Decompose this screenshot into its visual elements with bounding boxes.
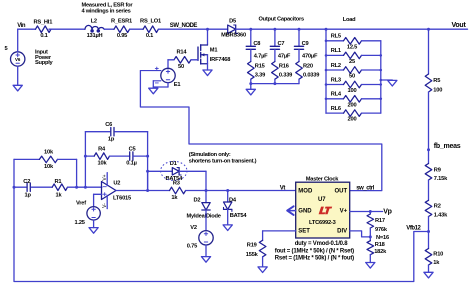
resistor RL5 load	[325, 34, 381, 51]
svg-text:Load: Load	[343, 17, 356, 23]
svg-text:R1: R1	[55, 179, 62, 185]
resistor R17	[367, 212, 388, 237]
wire Vref to ground	[93, 220, 95, 228]
svg-text:5: 5	[5, 46, 8, 52]
node SW_NODE label	[170, 23, 198, 29]
resistor R14 gate	[174, 50, 198, 71]
svg-text:V6: V6	[15, 57, 21, 62]
annotation Master Clock	[306, 176, 339, 182]
diode D4 BAT54	[224, 191, 248, 220]
svg-text:4 windings in series: 4 windings in series	[82, 8, 131, 14]
op-amp U2 LT6015	[102, 173, 132, 209]
svg-text:Master Clock: Master Clock	[306, 176, 339, 182]
op-amp U7 LTC6992 box	[296, 182, 350, 238]
ground under D4	[223, 225, 232, 231]
wire R10 to ground	[428, 265, 430, 272]
svg-text:Rset = (1MHz * 50k) / (N * fou: Rset = (1MHz * 50k) / (N * fout)	[275, 255, 354, 261]
svg-text:RL1: RL1	[331, 48, 341, 54]
svg-text:R19: R19	[247, 242, 257, 248]
wire D1 branch left	[146, 170, 149, 191]
svg-text:131µH: 131µH	[87, 33, 103, 39]
svg-text:V+: V+	[340, 208, 348, 214]
svg-text:100: 100	[433, 87, 442, 93]
svg-text:RL5: RL5	[331, 34, 341, 40]
wire R17 to R18	[369, 237, 371, 241]
wire Vt row to MOD	[206, 190, 296, 192]
svg-text:V2: V2	[190, 225, 197, 231]
wire V6 bottom	[17, 66, 19, 85]
node fb_meas label	[427, 143, 461, 151]
wire R_ESR1 to RS_LO1	[130, 28, 144, 30]
wire load left bus	[325, 29, 327, 113]
ground under R10	[424, 272, 433, 278]
svg-text:RL3: RL3	[331, 77, 341, 83]
wire load right bus	[380, 41, 382, 113]
svg-text:MyIdealDiode: MyIdealDiode	[187, 213, 221, 219]
inductor L2	[85, 18, 104, 39]
wire M1 drain	[207, 29, 209, 45]
annotation Input Power Supply	[35, 50, 54, 66]
wire D4 to ground	[227, 209, 229, 225]
svg-text:50: 50	[349, 74, 355, 80]
svg-text:182k: 182k	[374, 249, 387, 255]
svg-text:100: 100	[348, 88, 357, 94]
wire D1 branch right	[205, 171, 208, 192]
svg-text:shortens turn-on transient.): shortens turn-on transient.)	[189, 158, 257, 164]
wire op-amp output	[116, 189, 149, 192]
svg-text:R17: R17	[375, 218, 385, 224]
svg-text:1k: 1k	[56, 193, 63, 199]
wire R18 to ground	[369, 255, 371, 263]
wire R14 to E1	[168, 60, 174, 69]
svg-text:0.339: 0.339	[279, 73, 292, 79]
wire op-amp plus input to Vref	[94, 194, 102, 206]
wire L2 to R_ESR1	[104, 28, 114, 30]
wire D2 to V2	[205, 210, 207, 231]
node junction R4 tap	[84, 186, 87, 189]
resistor R18	[367, 241, 387, 255]
svg-text:0.0339: 0.0339	[303, 73, 319, 79]
svg-text:0.75: 0.75	[187, 244, 197, 250]
svg-text:0.1µ: 0.1µ	[126, 160, 136, 166]
ground under M1 source	[203, 70, 212, 76]
svg-text:OUT: OUT	[335, 189, 348, 195]
node Vfb12	[406, 226, 430, 233]
svg-text:200: 200	[348, 117, 357, 123]
resistor RL3 load	[325, 77, 382, 94]
svg-text:Vp: Vp	[383, 208, 391, 215]
svg-text:R20: R20	[303, 63, 313, 69]
svg-text:1k: 1k	[171, 195, 178, 201]
svg-text:12.5: 12.5	[347, 44, 357, 50]
svg-text:1p: 1p	[25, 193, 32, 199]
svg-text:976k: 976k	[375, 227, 388, 233]
wire RS_LO1 to D5 (SW_NODE)	[158, 28, 227, 30]
wire sw_ctrl from E1 control to OUT pin	[140, 71, 381, 191]
ground under R19	[258, 267, 267, 273]
svg-text:U2: U2	[113, 181, 120, 187]
wire V2 to ground	[205, 245, 207, 257]
svg-text:7.15k: 7.15k	[434, 176, 448, 182]
wire SET pin to R19	[263, 231, 296, 240]
annotation simulation only	[189, 152, 257, 164]
svg-text:(Simulation only:: (Simulation only:	[189, 152, 231, 158]
annotation Load	[343, 17, 356, 23]
wire feedback bottom rail	[14, 159, 429, 281]
voltage source Vref 1.25	[75, 201, 101, 226]
svg-text:1.25: 1.25	[75, 220, 85, 226]
resistor R3	[148, 180, 206, 201]
node Vt label	[280, 185, 286, 191]
capacitor C2	[13, 179, 53, 199]
svg-text:BAT54: BAT54	[230, 213, 248, 219]
svg-text:R3: R3	[173, 180, 180, 186]
svg-text:200: 200	[348, 102, 357, 108]
resistor RS_HI1	[32, 19, 52, 38]
svg-text:1k: 1k	[433, 260, 440, 266]
node Vout label	[452, 22, 467, 29]
svg-text:D1: D1	[170, 161, 177, 167]
resistor R4	[85, 147, 109, 167]
svg-text:0.1: 0.1	[146, 33, 153, 39]
svg-text:duty = Vmod-0.1/0.8: duty = Vmod-0.1/0.8	[295, 241, 349, 247]
svg-text:D5: D5	[229, 19, 236, 25]
wire R4 branch vertical	[84, 132, 86, 188]
svg-text:R5: R5	[433, 78, 440, 84]
wire 10k loop down	[75, 159, 78, 188]
svg-text:V-: V-	[102, 203, 108, 208]
svg-text:D2: D2	[194, 197, 201, 203]
svg-text:1.43k: 1.43k	[434, 213, 448, 219]
node junction M1 drain	[206, 28, 209, 31]
svg-text:L2: L2	[91, 18, 97, 24]
wire DIV pin	[350, 231, 371, 237]
svg-text:U7: U7	[318, 197, 326, 203]
wire V6 top to Vin rail	[18, 29, 32, 52]
svg-text:155k: 155k	[246, 252, 259, 258]
resistor R10	[425, 249, 443, 267]
resistor R1	[52, 179, 102, 199]
ground under output caps	[246, 89, 255, 95]
wire load ground tap	[380, 79, 393, 82]
resistor RS_LO1	[140, 18, 161, 39]
resistor R2	[425, 200, 448, 218]
voltage source V2 0.75	[187, 225, 213, 249]
dependent source E1 gate driver	[140, 67, 180, 88]
wire R19 to ground	[262, 257, 264, 267]
resistor RL1 load	[325, 48, 382, 65]
svg-text:R18: R18	[375, 242, 385, 248]
wire capacitor bottom rail	[251, 82, 299, 85]
capacitor C9 + resistor R20 branch	[294, 28, 319, 84]
svg-text:D4: D4	[229, 198, 237, 204]
svg-text:R_ESR1: R_ESR1	[111, 18, 132, 24]
svg-text:SET: SET	[298, 229, 310, 235]
wire rail to R5	[428, 29, 430, 74]
svg-text:MBRS360: MBRS360	[221, 33, 246, 39]
capacitor C5	[110, 147, 148, 167]
annotation measured L ESR	[82, 3, 134, 15]
wire R9 to R2	[428, 180, 430, 200]
svg-text:Vout: Vout	[452, 22, 467, 29]
ground under R18	[366, 263, 375, 269]
wire fb_meas to R9	[428, 150, 430, 164]
svg-text:DIV: DIV	[337, 229, 347, 235]
wire V+ pin to Vp	[350, 210, 383, 213]
svg-text:RS_HI1: RS_HI1	[33, 19, 52, 25]
svg-text:0.1: 0.1	[40, 33, 47, 39]
svg-text:C2: C2	[23, 179, 30, 185]
svg-text:C7: C7	[278, 41, 285, 47]
capacitor C7 + resistor R16 branch	[270, 28, 292, 84]
ground under E1	[149, 88, 158, 94]
resistor R5	[425, 74, 442, 93]
capacitor C8 + resistor R15 branch	[246, 28, 268, 84]
svg-text:fout = (1MHz * 50k) / (N * Rse: fout = (1MHz * 50k) / (N * Rset)	[275, 248, 354, 254]
capacitor C6	[84, 122, 148, 157]
node junction R5 top	[427, 28, 430, 31]
svg-text:Vfb12: Vfb12	[406, 226, 421, 232]
ground under V6	[13, 85, 22, 91]
svg-text:Vt: Vt	[280, 185, 286, 191]
annotation Rset formula	[275, 255, 354, 261]
wire to ground below caps	[249, 82, 252, 89]
wire R2 to Vfb12	[428, 217, 430, 232]
svg-text:1p: 1p	[108, 137, 115, 143]
voltage source V6 input supply	[5, 46, 25, 66]
svg-text:10k: 10k	[44, 150, 54, 156]
svg-text:MOD: MOD	[298, 189, 313, 195]
svg-text:4.7µF: 4.7µF	[254, 53, 268, 59]
svg-text:Output Capacitors: Output Capacitors	[259, 17, 304, 23]
svg-text:RL2: RL2	[331, 63, 341, 69]
node Vin label	[17, 23, 26, 29]
svg-text:47µF: 47µF	[278, 53, 291, 59]
svg-text:RL6: RL6	[331, 106, 341, 112]
svg-text:R9: R9	[434, 167, 441, 173]
svg-text:SW_NODE: SW_NODE	[170, 23, 198, 29]
svg-text:C9: C9	[302, 41, 309, 47]
node sw_ctrl label	[356, 186, 374, 192]
svg-text:C8: C8	[253, 41, 260, 47]
wire R5 to fb_meas	[428, 92, 430, 150]
svg-text:R15: R15	[255, 63, 265, 69]
resistor R9	[425, 164, 448, 183]
svg-text:10k: 10k	[98, 160, 108, 166]
wire C5 junction down	[146, 132, 149, 191]
svg-text:3.39: 3.39	[255, 73, 265, 79]
svg-text:sw_ctrl: sw_ctrl	[356, 186, 374, 192]
wire RS_HI1 to L2	[49, 28, 85, 30]
ground under Vref	[89, 228, 98, 234]
svg-text:GND: GND	[298, 208, 312, 214]
svg-text:10k: 10k	[44, 164, 54, 170]
ground load	[388, 80, 397, 86]
node N=16 junction	[369, 235, 389, 241]
svg-text:Supply: Supply	[35, 60, 54, 66]
svg-text:R16: R16	[279, 63, 289, 69]
svg-text:50: 50	[178, 64, 184, 70]
wire E1 minus to ground	[153, 81, 168, 87]
svg-text:IRF7468: IRF7468	[210, 57, 230, 63]
diode D5	[221, 19, 246, 39]
svg-text:RL4: RL4	[331, 92, 342, 98]
resistor R_ESR1	[111, 18, 132, 39]
svg-text:M1: M1	[210, 48, 218, 54]
node junction D4	[226, 189, 229, 192]
diode D1 BAT54	[148, 161, 206, 182]
svg-text:LT6015: LT6015	[113, 196, 131, 202]
annotation duty formula	[295, 241, 349, 247]
svg-text:LTC6992-3: LTC6992-3	[309, 220, 336, 226]
svg-text:N=16: N=16	[376, 235, 389, 241]
svg-text:25: 25	[349, 59, 355, 65]
svg-text:R2: R2	[434, 204, 441, 210]
annotation Output Capacitors	[259, 17, 304, 23]
svg-text:R10: R10	[433, 251, 443, 257]
svg-text:C5: C5	[129, 147, 136, 153]
resistor RL4 load	[325, 92, 382, 109]
svg-text:RS_LO1: RS_LO1	[140, 18, 161, 24]
svg-text:C6: C6	[105, 122, 112, 128]
svg-text:Vref: Vref	[76, 201, 86, 207]
resistor R19	[246, 240, 266, 257]
resistor RL2 load	[325, 63, 382, 80]
diode D2 MyIdealDiode	[187, 191, 221, 220]
svg-text:fb_meas: fb_meas	[434, 143, 461, 150]
port arrow at GND pin	[287, 206, 295, 215]
transistor M1 IRF7468	[198, 45, 230, 70]
svg-text:Vin: Vin	[17, 23, 26, 29]
dotted circle around D1	[161, 161, 187, 180]
svg-text:V+: V+	[102, 174, 108, 180]
resistor 10k feedback	[14, 150, 77, 171]
wire D5 to Vout	[236, 28, 468, 30]
svg-text:0.95: 0.95	[117, 33, 127, 39]
node Vp label	[383, 208, 391, 215]
ground under V2	[201, 257, 210, 263]
annotation fout formula	[275, 248, 354, 254]
resistor RL6 load	[326, 106, 381, 123]
svg-text:470µF: 470µF	[302, 53, 318, 59]
svg-text:R14: R14	[177, 50, 188, 56]
node junction load top	[325, 28, 328, 31]
wire Vfb12 to R10	[428, 232, 430, 249]
svg-text:E1: E1	[174, 82, 181, 88]
svg-text:R4: R4	[98, 147, 106, 153]
